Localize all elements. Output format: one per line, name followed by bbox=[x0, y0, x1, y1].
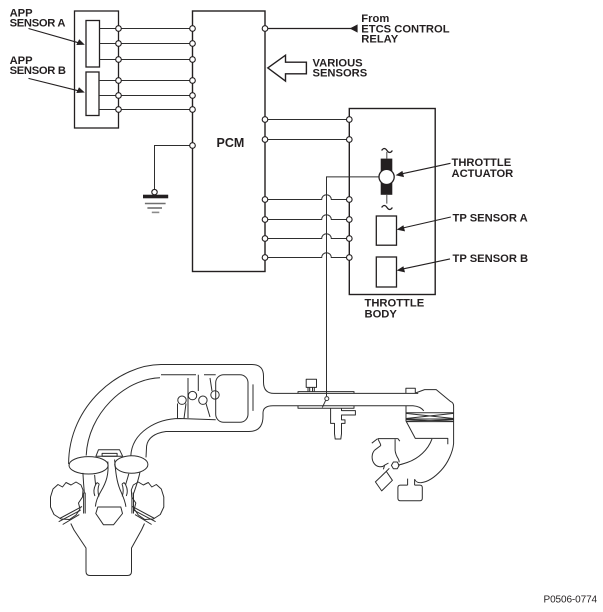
duct bottom flange bbox=[298, 406, 354, 409]
duct top mounting plate bbox=[298, 392, 354, 394]
EGR funnel cup rim bbox=[378, 439, 400, 442]
intake passage inner curve bbox=[398, 439, 432, 465]
svg-text:P0506-0774: P0506-0774 bbox=[544, 595, 598, 606]
left lobe runner outer wall bbox=[83, 473, 85, 494]
wire PCM to throttle body row3 with hop bbox=[265, 195, 349, 200]
ETCS arrowhead bbox=[350, 24, 358, 32]
resonator circle 4 bbox=[211, 391, 219, 399]
locator probe tail bbox=[322, 401, 325, 408]
tilted square fitting bbox=[375, 471, 392, 491]
wire to ETCS control relay bbox=[265, 28, 352, 30]
actuator feed wire and locator line down to engine bbox=[327, 177, 380, 396]
VARIOUS SENSORS block arrow bbox=[268, 55, 307, 81]
svg-text:TP SENSOR A: TP SENSOR A bbox=[453, 213, 528, 225]
resonator circle 2 bbox=[188, 391, 196, 399]
leader arrow to sensor A bbox=[29, 29, 81, 44]
resonator chamber rounded rect bbox=[216, 375, 248, 423]
valve leaves left bbox=[94, 483, 99, 497]
svg-text:THROTTLE: THROTTLE bbox=[452, 157, 512, 169]
wire PCM to throttle body row2 bbox=[265, 139, 349, 141]
label THROTTLE ACTUATOR with leader arrow bbox=[400, 163, 451, 174]
APP connector terminals bbox=[116, 26, 122, 113]
PCM box bbox=[193, 11, 266, 272]
resonator circle 3 bbox=[199, 396, 207, 404]
PCM left pins bbox=[190, 26, 196, 113]
hex fitting bbox=[391, 462, 399, 469]
plenum center cap bbox=[96, 450, 123, 457]
intake plenum left lobe bbox=[69, 457, 108, 474]
PCM right pin (ETCS) bbox=[262, 26, 268, 32]
cylinder head right (ragged) bbox=[131, 482, 164, 520]
square link bbox=[383, 465, 389, 471]
intake plenum right lobe bbox=[115, 456, 148, 473]
cylinder head left (ragged) bbox=[51, 482, 84, 520]
air duct inner wall curve bbox=[86, 378, 160, 456]
engine block and oil pan bbox=[71, 524, 145, 576]
wire APP A pin1 bbox=[100, 28, 193, 30]
locator terminal circle on duct bbox=[325, 397, 329, 401]
left lobe runner inner wall bbox=[95, 475, 96, 485]
APP sensor B element bbox=[86, 72, 99, 116]
throttle body box bbox=[349, 109, 435, 295]
wire APP B pin3 bbox=[99, 109, 193, 111]
engine throttle body left and bottom edge bbox=[406, 406, 448, 445]
throttle inlet bump bbox=[406, 388, 415, 393]
bracket below duct bbox=[331, 408, 356, 439]
resonator inner top wall bbox=[161, 374, 216, 376]
right lobe runner outer wall bbox=[134, 472, 140, 494]
wire PCM to throttle body row5 with hop bbox=[265, 234, 349, 239]
inner chamber bottom tube to plenum bbox=[131, 419, 216, 457]
label TP SENSOR A with leader arrow bbox=[400, 217, 451, 229]
butterfly valve band bbox=[406, 413, 454, 422]
ground wire bbox=[155, 146, 193, 190]
PCM right pins bbox=[262, 117, 268, 261]
throttle actuator motor bbox=[379, 149, 394, 210]
svg-text:SENSOR A: SENSOR A bbox=[10, 17, 66, 29]
EGR cup right wall bbox=[395, 439, 399, 462]
valve stems left bbox=[84, 493, 86, 514]
wire APP B pin2 bbox=[99, 95, 193, 97]
pushrod slant lines left bbox=[59, 507, 82, 525]
svg-text:TP SENSOR B: TP SENSOR B bbox=[453, 253, 529, 265]
mount foot bbox=[398, 485, 422, 501]
EGR stub tube bbox=[372, 439, 381, 450]
EGR cup left wall bbox=[378, 439, 381, 446]
center runner right wall bbox=[115, 460, 126, 507]
valve stems right bbox=[132, 493, 134, 514]
TP sensor A bbox=[376, 216, 396, 245]
wire APP B pin1 bbox=[99, 80, 193, 82]
throttle body pins bbox=[347, 117, 353, 261]
wire PCM to throttle body row1 bbox=[265, 119, 349, 121]
passage neck bbox=[408, 479, 415, 486]
label TP SENSOR B with leader arrow bbox=[400, 259, 450, 270]
butterfly X cross bbox=[406, 413, 454, 418]
svg-text:BODY: BODY bbox=[365, 309, 398, 321]
svg-text:SENSORS: SENSORS bbox=[313, 68, 368, 80]
svg-text:ACTUATOR: ACTUATOR bbox=[452, 168, 514, 180]
center runner left wall bbox=[95, 462, 108, 507]
intake passage outer curve bbox=[415, 444, 454, 483]
resonator circle 1 bbox=[178, 396, 186, 404]
plenum cap inner rect bbox=[102, 453, 117, 456]
APP sensor assembly box bbox=[75, 11, 119, 128]
valve leaves right bbox=[122, 483, 127, 497]
svg-text:SENSOR B: SENSOR B bbox=[10, 65, 66, 77]
sensor pod on duct bbox=[306, 379, 316, 391]
pushrod slant lines right bbox=[132, 507, 155, 525]
ground symbol bbox=[143, 195, 168, 213]
throttle inner corner bbox=[406, 406, 424, 411]
duct bottom and inner bend bbox=[146, 406, 406, 458]
wire PCM to throttle body row6 with hop bbox=[265, 253, 349, 258]
leader arrow to sensor B bbox=[29, 78, 81, 91]
right lobe runner inner wall bbox=[126, 474, 129, 485]
chamber inner vertical line bbox=[252, 384, 254, 411]
resonator vertical walls bbox=[178, 375, 213, 419]
engine center chamber bbox=[96, 507, 123, 525]
APP sensor A element bbox=[86, 21, 100, 68]
wire PCM to throttle body row4 with hop bbox=[265, 215, 349, 220]
resonator slant links bbox=[184, 404, 210, 419]
svg-text:RELAY: RELAY bbox=[361, 34, 398, 46]
ground terminal circle bbox=[152, 189, 157, 194]
wire APP A pin3 bbox=[100, 59, 193, 61]
engine throttle body outline bbox=[416, 390, 454, 444]
wire APP A pin2 bbox=[100, 43, 193, 45]
EGR hook curl bbox=[372, 450, 388, 467]
svg-text:PCM: PCM bbox=[217, 136, 245, 150]
TP sensor B bbox=[376, 257, 396, 287]
air intake duct outer outline bbox=[69, 365, 419, 465]
PCM ground pin bbox=[190, 143, 196, 149]
